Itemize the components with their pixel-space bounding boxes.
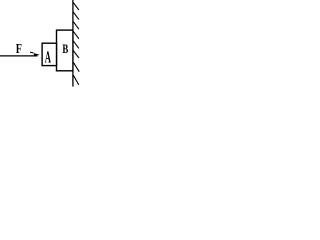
wall hatch 2	[73, 12, 79, 20]
force arrow F shaft	[0, 55, 38, 57]
wall hatch 6	[73, 50, 79, 58]
wall hatch 3	[73, 22, 79, 30]
force arrow F upper barb	[30, 51, 33, 54]
block A	[42, 43, 56, 65]
wall hatch 5	[73, 41, 79, 49]
wall	[72, 0, 74, 87]
force arrow F head	[34, 53, 40, 56]
svg-text:F: F	[16, 40, 22, 56]
svg-text:B: B	[62, 42, 68, 56]
wall hatch 7	[73, 62, 79, 71]
wall hatch 4	[73, 31, 79, 39]
wall hatch 8	[73, 75, 79, 85]
block B	[57, 30, 73, 71]
wall hatch 1	[73, 2, 79, 10]
label A apex serif	[47, 51, 48, 54]
